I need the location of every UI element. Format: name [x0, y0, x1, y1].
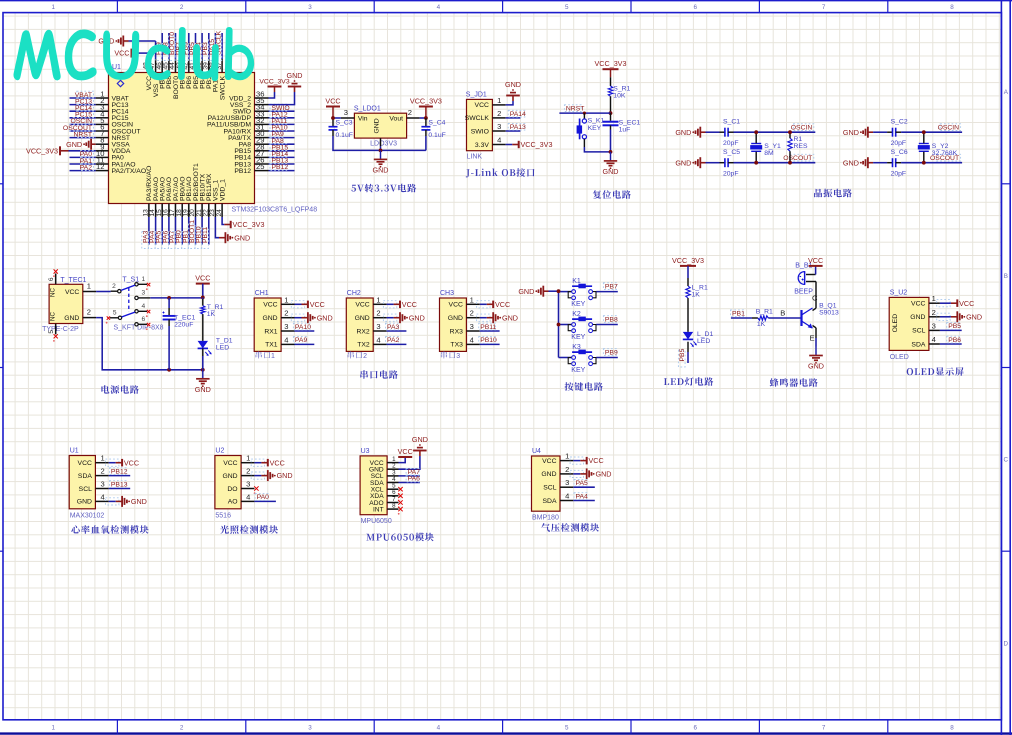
svg-text:BEEP: BEEP — [794, 289, 813, 296]
svg-text:2: 2 — [470, 309, 474, 318]
svg-text:PA9: PA9 — [295, 337, 308, 344]
svg-text:3: 3 — [470, 322, 474, 331]
svg-text:OSCOUT: OSCOUT — [783, 155, 812, 162]
svg-text:PB11: PB11 — [480, 324, 496, 331]
svg-text:NRST: NRST — [73, 131, 92, 138]
svg-text:PB12: PB12 — [111, 468, 128, 475]
svg-text:KEY: KEY — [588, 125, 602, 132]
svg-text:GND: GND — [843, 158, 859, 167]
svg-text:GND: GND — [910, 314, 925, 321]
svg-text:GND: GND — [603, 167, 619, 176]
svg-text:S_Y2: S_Y2 — [932, 143, 949, 150]
svg-text:4: 4 — [284, 335, 288, 344]
svg-text:K2: K2 — [572, 311, 581, 318]
svg-text:2: 2 — [408, 108, 412, 117]
svg-text:SDA: SDA — [911, 341, 925, 348]
svg-text:6: 6 — [48, 277, 55, 281]
svg-text:GND: GND — [505, 80, 521, 89]
svg-text:1: 1 — [470, 295, 474, 304]
svg-text:SCL: SCL — [543, 485, 556, 492]
svg-text:SCL: SCL — [912, 328, 925, 335]
svg-text:PB13: PB13 — [111, 481, 128, 488]
svg-text:7: 7 — [822, 724, 826, 731]
svg-text:S_C3: S_C3 — [336, 120, 353, 127]
svg-text:VCC: VCC — [475, 102, 489, 109]
svg-text:D: D — [1004, 640, 1009, 647]
svg-text:T_TEC1: T_TEC1 — [60, 277, 86, 284]
svg-text:GND: GND — [808, 362, 824, 371]
svg-text:VCC: VCC — [263, 302, 277, 309]
svg-text:PB12: PB12 — [272, 164, 289, 171]
svg-text:PB10: PB10 — [480, 337, 497, 344]
svg-text:4: 4 — [497, 136, 501, 145]
svg-text:20pF: 20pF — [723, 140, 739, 147]
svg-text:GND: GND — [195, 385, 211, 394]
svg-text:B_R1: B_R1 — [756, 309, 773, 316]
svg-text:NRST: NRST — [566, 105, 585, 112]
svg-text:1: 1 — [51, 4, 55, 11]
svg-text:1: 1 — [497, 96, 501, 105]
svg-text:VCC_3V3: VCC_3V3 — [410, 97, 442, 106]
svg-text:3.3V: 3.3V — [475, 142, 489, 149]
svg-text:RX2: RX2 — [356, 328, 369, 335]
svg-text:3: 3 — [308, 724, 312, 731]
svg-text:E: E — [810, 334, 815, 343]
svg-text:3: 3 — [246, 480, 250, 489]
svg-text:CH2: CH2 — [347, 290, 361, 297]
svg-text:S_JD1: S_JD1 — [466, 92, 487, 99]
svg-text:GND: GND — [541, 471, 556, 478]
svg-text:8: 8 — [950, 724, 954, 731]
svg-text:3: 3 — [376, 322, 380, 331]
svg-text:LED: LED — [216, 344, 229, 351]
svg-text:6: 6 — [693, 724, 697, 731]
svg-text:SDA: SDA — [78, 473, 92, 480]
svg-text:PA4: PA4 — [576, 493, 589, 500]
svg-text:GND: GND — [843, 128, 859, 137]
svg-text:2: 2 — [932, 308, 936, 317]
svg-text:6: 6 — [693, 4, 697, 11]
svg-text:1K: 1K — [757, 321, 766, 328]
svg-text:5516: 5516 — [215, 512, 231, 519]
svg-text:4: 4 — [565, 492, 569, 501]
svg-text:RX1: RX1 — [264, 328, 277, 335]
svg-text:K1: K1 — [572, 278, 581, 285]
svg-text:GND: GND — [373, 166, 389, 175]
svg-text:DO: DO — [227, 486, 237, 493]
svg-text:PB6: PB6 — [948, 337, 961, 344]
svg-text:VCC: VCC — [398, 447, 413, 456]
svg-text:24: 24 — [216, 209, 223, 217]
svg-text:0.1uF: 0.1uF — [428, 132, 445, 139]
svg-text:PA14: PA14 — [510, 111, 526, 118]
svg-text:GND: GND — [277, 471, 293, 480]
svg-text:GND: GND — [502, 313, 518, 322]
svg-text:PB8: PB8 — [605, 316, 618, 323]
svg-text:GND: GND — [373, 118, 380, 133]
svg-text:VCC: VCC — [495, 300, 510, 309]
svg-text:VCC: VCC — [78, 460, 92, 467]
svg-text:LINK: LINK — [467, 154, 483, 161]
svg-text:VCC: VCC — [270, 458, 285, 467]
svg-text:4: 4 — [932, 335, 936, 344]
svg-text:B: B — [780, 309, 785, 318]
svg-text:OSCIN: OSCIN — [791, 124, 813, 131]
svg-text:1: 1 — [142, 276, 146, 283]
svg-text:2: 2 — [112, 283, 116, 290]
svg-text:PB1: PB1 — [732, 311, 745, 318]
svg-text:PA13: PA13 — [510, 124, 526, 131]
svg-text:GND: GND — [234, 233, 250, 242]
svg-text:6: 6 — [142, 316, 146, 323]
svg-text:1: 1 — [565, 452, 569, 461]
svg-text:U4: U4 — [532, 448, 541, 455]
svg-text:S_C2: S_C2 — [891, 119, 908, 126]
svg-text:5: 5 — [113, 310, 117, 317]
svg-text:CH1: CH1 — [255, 290, 269, 297]
svg-text:VCC: VCC — [808, 256, 823, 265]
svg-text:GND: GND — [966, 312, 982, 321]
svg-text:GND: GND — [262, 315, 277, 322]
svg-text:VCC: VCC — [959, 299, 974, 308]
svg-text:MPU6050: MPU6050 — [361, 518, 392, 525]
svg-text:GND: GND — [596, 470, 612, 479]
svg-text:S_C5: S_C5 — [723, 149, 740, 156]
svg-text:SDA: SDA — [543, 498, 557, 505]
svg-text:1: 1 — [376, 295, 380, 304]
svg-text:KEY: KEY — [571, 367, 585, 374]
svg-text:GND: GND — [131, 497, 147, 506]
svg-text:AO: AO — [228, 499, 238, 506]
svg-text:VCC_3V3: VCC_3V3 — [595, 59, 627, 68]
svg-text:8: 8 — [950, 4, 954, 11]
svg-text:3: 3 — [308, 4, 312, 11]
svg-text:S_C4: S_C4 — [428, 120, 445, 127]
svg-text:RX3: RX3 — [450, 328, 463, 335]
svg-text:25: 25 — [256, 162, 264, 171]
svg-text:3: 3 — [497, 122, 501, 131]
svg-text:3: 3 — [456, 353, 460, 360]
svg-text:C: C — [812, 294, 818, 303]
svg-text:PA2/TX/AO: PA2/TX/AO — [112, 168, 147, 175]
svg-text:VCC: VCC — [589, 456, 604, 465]
svg-text:VCC: VCC — [310, 300, 325, 309]
svg-text:PA10: PA10 — [295, 324, 311, 331]
svg-text:S9013: S9013 — [819, 309, 839, 316]
svg-text:12: 12 — [96, 162, 104, 171]
svg-text:TX2: TX2 — [357, 342, 370, 349]
svg-text:GND: GND — [64, 315, 79, 322]
svg-text:4: 4 — [470, 335, 474, 344]
svg-text:4: 4 — [246, 492, 250, 501]
svg-text:U3: U3 — [361, 448, 370, 455]
svg-text:1: 1 — [87, 282, 91, 291]
svg-text:NC: NC — [50, 312, 57, 321]
svg-text:GND: GND — [409, 313, 425, 322]
svg-text:VDD_1: VDD_1 — [219, 179, 226, 201]
svg-text:PA6: PA6 — [408, 476, 421, 483]
svg-text:2: 2 — [284, 309, 288, 318]
svg-text:K3: K3 — [572, 344, 581, 351]
svg-text:2: 2 — [565, 465, 569, 474]
svg-text:1: 1 — [100, 454, 104, 463]
svg-text:GND: GND — [675, 128, 691, 137]
svg-text:LDO3V3: LDO3V3 — [370, 141, 397, 148]
svg-text:BMP180: BMP180 — [532, 515, 559, 522]
svg-text:GND: GND — [518, 287, 534, 296]
svg-text:1K: 1K — [207, 311, 216, 318]
svg-text:U2: U2 — [215, 448, 224, 455]
svg-text:INT: INT — [373, 506, 384, 513]
svg-text:OLED: OLED — [890, 354, 909, 361]
svg-text:1K: 1K — [692, 292, 701, 299]
svg-text:2: 2 — [497, 109, 501, 118]
svg-text:5: 5 — [565, 4, 569, 11]
svg-text:PB5: PB5 — [948, 323, 961, 330]
svg-text:GND: GND — [317, 313, 333, 322]
svg-text:TX1: TX1 — [265, 342, 278, 349]
svg-text:S_KFT DIP-8X8: S_KFT DIP-8X8 — [114, 325, 164, 332]
svg-text:220uF: 220uF — [174, 321, 193, 328]
svg-text:PB5: PB5 — [679, 348, 686, 361]
svg-text:SWCLK: SWCLK — [465, 115, 490, 122]
svg-text:1uF: 1uF — [619, 127, 631, 134]
svg-text:GND: GND — [675, 158, 691, 167]
svg-text:VCC: VCC — [65, 289, 79, 296]
svg-text:U1: U1 — [70, 448, 79, 455]
svg-text:PB9: PB9 — [605, 349, 618, 356]
svg-text:VCC: VCC — [542, 458, 556, 465]
svg-text:SWIO: SWIO — [471, 128, 489, 135]
svg-text:S_EC1: S_EC1 — [619, 120, 641, 127]
svg-text:R1: R1 — [794, 136, 803, 143]
svg-text:VCC_3V3: VCC_3V3 — [26, 146, 58, 155]
svg-text:3: 3 — [100, 480, 104, 489]
svg-text:VCC: VCC — [911, 301, 925, 308]
svg-text:0.1uF: 0.1uF — [336, 132, 353, 139]
svg-text:1: 1 — [284, 295, 288, 304]
svg-text:RES: RES — [794, 143, 808, 150]
svg-text:8: 8 — [392, 503, 396, 510]
svg-text:PB11: PB11 — [202, 227, 209, 243]
svg-text:S_K1: S_K1 — [588, 118, 605, 125]
svg-text:4: 4 — [142, 303, 146, 310]
svg-text:PA5: PA5 — [576, 480, 589, 487]
svg-text:20pF: 20pF — [891, 171, 907, 178]
svg-text:GND: GND — [448, 315, 463, 322]
svg-text:KEY: KEY — [571, 301, 585, 308]
svg-text:STM32F103C8T6_LQFP48: STM32F103C8T6_LQFP48 — [232, 207, 318, 214]
svg-text:B: B — [1004, 273, 1008, 280]
svg-text:7: 7 — [822, 4, 826, 11]
svg-text:10K: 10K — [613, 92, 626, 99]
svg-text:4: 4 — [100, 492, 104, 501]
svg-text:VCC: VCC — [325, 97, 340, 106]
svg-text:SWCLK: SWCLK — [219, 76, 226, 101]
svg-text:NC: NC — [50, 288, 57, 297]
svg-text:3: 3 — [344, 108, 348, 117]
svg-text:SCL: SCL — [79, 486, 92, 493]
svg-text:PA3: PA3 — [387, 324, 400, 331]
svg-text:1: 1 — [51, 724, 55, 731]
svg-text:VCC_3V3: VCC_3V3 — [521, 140, 553, 149]
svg-text:B_Q1: B_Q1 — [819, 302, 837, 309]
svg-text:VCC_3V3: VCC_3V3 — [672, 256, 704, 265]
svg-text:20pF: 20pF — [891, 140, 907, 147]
svg-text:2: 2 — [180, 724, 184, 731]
svg-text:2: 2 — [180, 4, 184, 11]
svg-text:VCC: VCC — [114, 49, 129, 58]
svg-text:S_LDO1: S_LDO1 — [354, 106, 381, 113]
svg-text:32.768K: 32.768K — [932, 150, 958, 157]
svg-text:4: 4 — [376, 335, 380, 344]
svg-text:4: 4 — [437, 724, 441, 731]
svg-text:S_C1: S_C1 — [723, 119, 740, 126]
svg-text:KEY: KEY — [571, 334, 585, 341]
svg-text:L_D1: L_D1 — [697, 331, 713, 338]
svg-text:T_EC1: T_EC1 — [174, 314, 195, 321]
svg-text:2: 2 — [100, 467, 104, 476]
svg-text:T_D1: T_D1 — [216, 337, 233, 344]
svg-text:L_R1: L_R1 — [692, 285, 708, 292]
svg-text:VCC: VCC — [124, 458, 139, 467]
svg-text:OSCIN: OSCIN — [938, 124, 960, 131]
svg-text:VCC: VCC — [449, 302, 463, 309]
svg-text:Vout: Vout — [389, 116, 403, 123]
svg-text:S_C6: S_C6 — [891, 149, 908, 156]
svg-text:2: 2 — [87, 308, 91, 317]
svg-text:1: 1 — [271, 353, 275, 360]
svg-text:VCC: VCC — [402, 300, 417, 309]
svg-text:2: 2 — [246, 467, 250, 476]
svg-text:GND: GND — [77, 499, 92, 506]
svg-text:CH3: CH3 — [440, 290, 454, 297]
svg-text:GND: GND — [355, 315, 370, 322]
svg-text:20pF: 20pF — [723, 171, 739, 178]
svg-text:MAX30102: MAX30102 — [70, 512, 105, 519]
svg-text:8M: 8M — [764, 150, 774, 157]
svg-text:3: 3 — [565, 478, 569, 487]
svg-text:C: C — [1004, 457, 1009, 464]
svg-text:TX3: TX3 — [450, 342, 463, 349]
svg-text:1: 1 — [932, 294, 936, 303]
svg-text:2: 2 — [363, 353, 367, 360]
svg-text:5: 5 — [48, 330, 55, 334]
svg-text:3: 3 — [932, 321, 936, 330]
svg-text:4: 4 — [437, 4, 441, 11]
svg-text:LED: LED — [697, 338, 710, 345]
svg-text:1: 1 — [246, 454, 250, 463]
svg-text:PA0: PA0 — [257, 494, 270, 501]
svg-text:VCC_3V3: VCC_3V3 — [233, 220, 265, 229]
svg-text:S_U2: S_U2 — [890, 290, 908, 297]
svg-text:OLED: OLED — [892, 314, 899, 333]
svg-text:S_R1: S_R1 — [613, 85, 630, 92]
svg-text:3: 3 — [284, 322, 288, 331]
svg-text:T_R1: T_R1 — [207, 304, 224, 311]
svg-text:S_Y1: S_Y1 — [764, 143, 781, 150]
svg-text:VCC_3V3: VCC_3V3 — [259, 79, 289, 86]
svg-text:PA2: PA2 — [387, 337, 400, 344]
svg-text:PB7: PB7 — [605, 283, 618, 290]
svg-text:VCC: VCC — [223, 460, 237, 467]
svg-text:3: 3 — [142, 290, 146, 297]
svg-text:GND: GND — [66, 140, 82, 149]
svg-text:GND: GND — [287, 71, 303, 80]
svg-text:2: 2 — [376, 309, 380, 318]
svg-text:5: 5 — [565, 724, 569, 731]
svg-text:Vin: Vin — [358, 116, 368, 123]
svg-text:GND: GND — [222, 473, 237, 480]
svg-text:VCC: VCC — [355, 302, 369, 309]
svg-text:GND: GND — [412, 435, 428, 444]
svg-text:VCC: VCC — [195, 274, 210, 283]
svg-text:PA2: PA2 — [80, 164, 93, 171]
svg-text:PB12: PB12 — [234, 168, 251, 175]
